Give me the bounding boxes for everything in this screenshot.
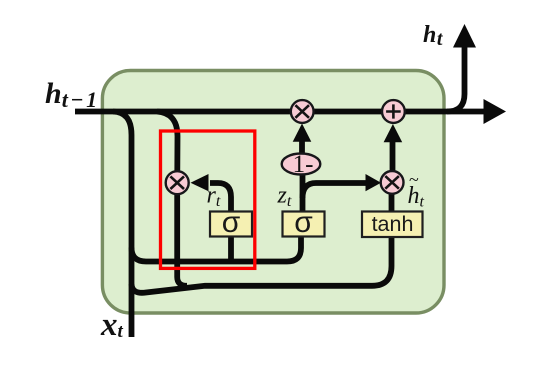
wire z gate up (300, 174, 306, 212)
wire x_t branch to tanh (132, 237, 392, 293)
svg-text:tanh: tanh (372, 212, 414, 236)
multiply gate on main line (291, 100, 314, 123)
arrowhead r into reset multiply (191, 174, 209, 191)
wire r gate up-left (210, 183, 231, 212)
label h~_t candidate (408, 170, 425, 211)
candidate multiply gate (381, 171, 404, 194)
add gate on main line (382, 100, 405, 123)
svg-text:~: ~ (409, 170, 419, 190)
svg-text:σ: σ (222, 206, 241, 239)
sigma gate z (283, 206, 325, 239)
tanh gate (362, 212, 423, 238)
wire z branch right (303, 183, 367, 198)
wire concat line to sigma gates (132, 237, 302, 262)
reset multiply gate (166, 171, 189, 194)
svg-text:ht: ht (423, 22, 444, 50)
wire 1-z stub above ellipse (299, 142, 305, 154)
wire reset multiply output (177, 194, 187, 286)
svg-text:1-: 1- (293, 151, 314, 178)
GRU cell body (102, 71, 444, 314)
svg-text:ht−1: ht−1 (45, 77, 100, 112)
1-z ellipse (282, 151, 321, 178)
wire h_{t-1} main line (75, 109, 488, 115)
wire branch to reset multiply (157, 112, 178, 172)
svg-text:σ: σ (294, 206, 313, 239)
arrowhead h_t up (453, 24, 476, 48)
arrowhead 1-z up into multiply (293, 124, 312, 142)
arrowhead candidate up into add (384, 124, 403, 142)
arrowhead z into candidate multiply (366, 174, 382, 191)
wire stub to sigma_r (228, 237, 234, 262)
arrowhead right output (484, 99, 507, 124)
red highlight rectangle (161, 131, 255, 268)
wire h_t up branch (447, 46, 465, 112)
wire candidate to add (390, 142, 396, 171)
sigma gate r (210, 206, 252, 239)
wire tanh to candidate multiply (389, 192, 395, 212)
wire trunk h_{t-1}/x_t left vertical (113, 112, 132, 338)
